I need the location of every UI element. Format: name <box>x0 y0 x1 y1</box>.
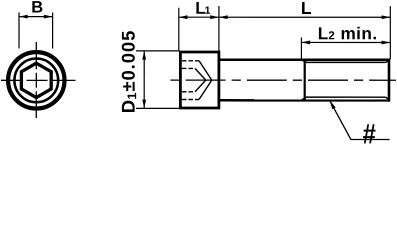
svg-text:B: B <box>31 0 43 16</box>
svg-text:L2 min.: L2 min. <box>318 23 378 43</box>
svg-text:L1: L1 <box>195 0 210 18</box>
svg-text:L: L <box>301 0 312 18</box>
svg-text:D1±0.005: D1±0.005 <box>118 30 140 113</box>
svg-text:#: # <box>363 118 377 147</box>
